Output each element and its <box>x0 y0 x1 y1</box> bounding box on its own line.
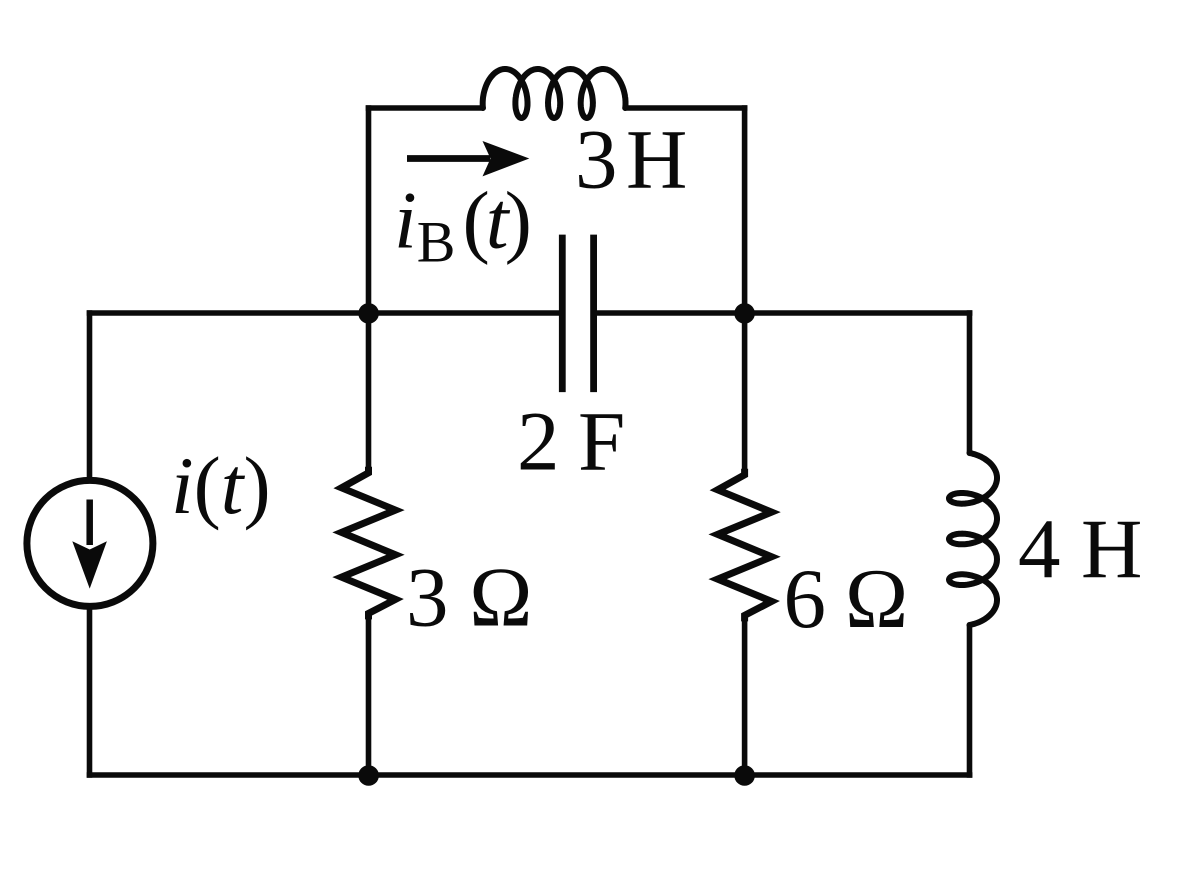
wire: outer left vertical, segment below current source <box>87 607 93 778</box>
wire: top horizontal, right of 3H inductor <box>625 105 747 111</box>
capacitor C1 2F right plate <box>590 235 597 393</box>
wire: outer left vertical, segment above current source <box>87 310 93 480</box>
svg-text:2F: 2F <box>517 395 625 489</box>
svg-text:3Ω: 3Ω <box>406 551 532 645</box>
resistor R1 3-ohm zigzag <box>342 467 396 620</box>
svg-text:3H: 3H <box>575 113 687 207</box>
node B junction dot (top right) <box>734 303 755 324</box>
svg-text:4H: 4H <box>1018 502 1142 596</box>
wire: 6-ohm branch, below resistor <box>742 615 748 775</box>
svg-text:iB(t): iB(t) <box>394 175 532 275</box>
wire: inner loop left vertical (top wire to node A) <box>366 105 372 313</box>
wire: main horizontal rail left of capacitor <box>87 310 563 316</box>
current arrow iB head (right) <box>483 141 530 176</box>
capacitor C1 2F left plate <box>559 235 566 393</box>
current source I1 circle <box>27 480 153 606</box>
svg-text:6Ω: 6Ω <box>784 552 909 646</box>
wire: 6-ohm branch, above resistor <box>742 313 748 475</box>
wire: 3-ohm branch, below resistor <box>366 613 372 775</box>
current source I1 arrow shaft <box>86 500 93 546</box>
current source I1 arrow head (down) <box>72 541 107 588</box>
wire: top horizontal, left of 3H inductor <box>366 105 483 111</box>
wire: outer right vertical, segment below 4H inductor <box>967 625 973 778</box>
current arrow iB shaft <box>407 155 490 162</box>
inductor L2 4H (right) <box>949 453 997 625</box>
node C junction dot (bottom left) <box>358 765 379 786</box>
resistor R2 6-ohm zigzag <box>718 469 772 622</box>
wire: main horizontal rail right of capacitor <box>594 310 973 316</box>
wire: bottom horizontal rail <box>87 772 973 778</box>
wire: outer right vertical, segment above 4H inductor <box>967 310 973 453</box>
svg-text:i(t): i(t) <box>171 440 271 531</box>
wire: inner loop right vertical (top wire to node B) <box>742 105 748 313</box>
inductor L1 3H (top) <box>483 69 626 118</box>
wire: 3-ohm branch, above resistor <box>366 313 372 473</box>
node D junction dot (bottom right) <box>734 765 755 786</box>
node A junction dot (top left) <box>358 303 379 324</box>
